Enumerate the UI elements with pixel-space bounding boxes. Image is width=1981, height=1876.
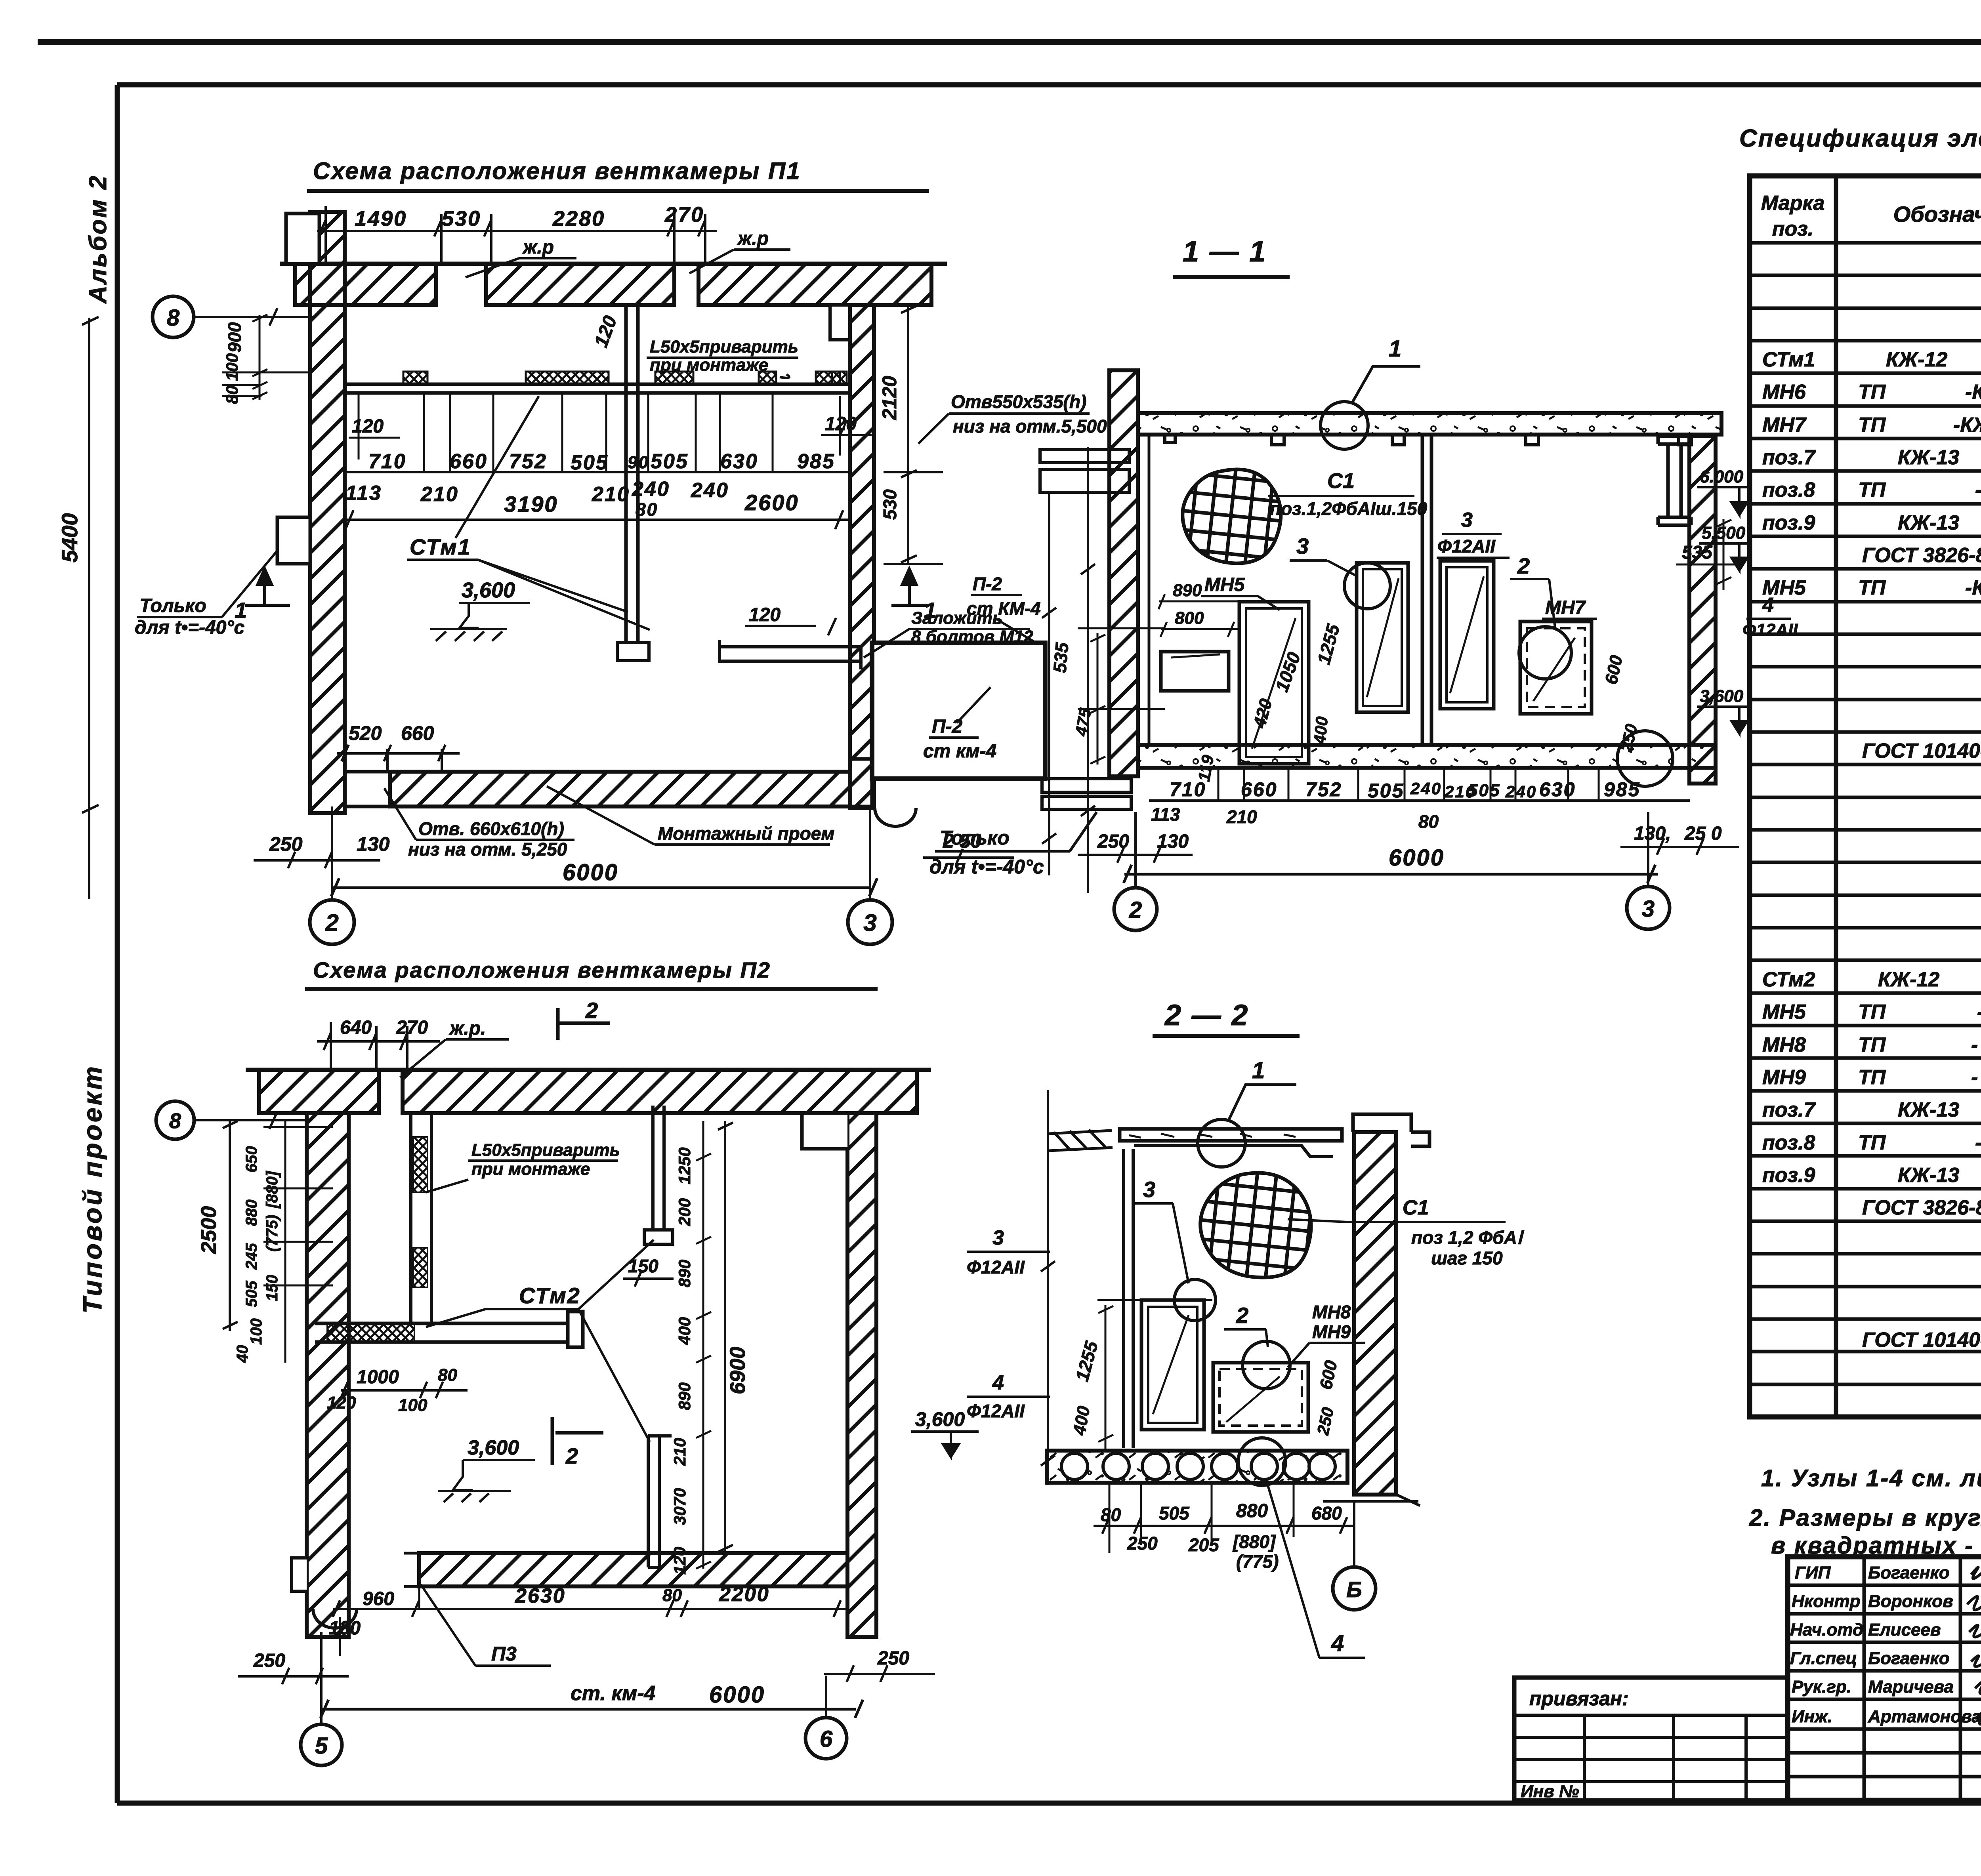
svg-text:3,600: 3,600 <box>915 1408 965 1430</box>
svg-text:505: 505 <box>1468 781 1500 800</box>
right wall hatched <box>850 305 874 808</box>
axis circle 2 <box>310 900 354 944</box>
title block grid <box>1514 1557 1981 1800</box>
svg-text:Гл.спец: Гл.спец <box>1790 1649 1857 1668</box>
svg-text:низ на отм. 5,250: низ на отм. 5,250 <box>408 839 567 860</box>
svg-text:5: 5 <box>315 1733 328 1759</box>
svg-text:4: 4 <box>1331 1630 1344 1656</box>
right wall hatched <box>1354 1132 1396 1495</box>
top wall band <box>259 1070 379 1113</box>
svg-text:Воронков: Воронков <box>1868 1592 1953 1611</box>
svg-text:2: 2 <box>585 998 598 1023</box>
signature table rows <box>1788 1585 1981 1777</box>
svg-text:520: 520 <box>349 722 382 744</box>
left wall bottom ledge <box>292 1558 307 1591</box>
bottom band opening edge <box>343 772 390 806</box>
svg-text:240: 240 <box>1410 779 1442 798</box>
node circle top <box>1198 1119 1245 1167</box>
svg-text:4: 4 <box>992 1371 1004 1394</box>
tall frame B <box>1357 563 1408 712</box>
dim row top <box>355 203 704 231</box>
signature table texts <box>1790 1563 1981 1726</box>
table header labels <box>1761 192 1981 240</box>
tall frame C <box>1440 561 1494 709</box>
axis circle 2 <box>1114 888 1157 930</box>
svg-text:100: 100 <box>398 1396 427 1415</box>
svg-text:привязан:: привязан: <box>1529 1687 1629 1710</box>
svg-text:650: 650 <box>243 1146 260 1172</box>
T flange right <box>568 1312 583 1347</box>
inner secondary wall <box>411 1113 431 1323</box>
left small dims stack <box>234 1146 281 1363</box>
right end line below wall <box>1323 1495 1420 1506</box>
svg-text:3,600: 3,600 <box>468 1436 519 1459</box>
svg-text:низ на отм.5,500: низ на отм.5,500 <box>953 416 1107 437</box>
svg-text:ТП: ТП <box>1858 1066 1886 1089</box>
bottom interior band <box>419 1553 847 1586</box>
svg-text:3: 3 <box>1296 534 1309 559</box>
svg-text:Ф12АII: Ф12АII <box>967 1257 1025 1277</box>
svg-text:Артамонова: Артамонова <box>1868 1707 1981 1726</box>
svg-text:(775): (775) <box>1236 1551 1279 1572</box>
svg-text:400: 400 <box>675 1317 694 1345</box>
svg-text:П3: П3 <box>491 1643 517 1665</box>
svg-text:6: 6 <box>820 1726 833 1752</box>
tall frame <box>1141 1300 1204 1430</box>
svg-text:шаг 150: шаг 150 <box>1431 1248 1503 1268</box>
svg-text:120: 120 <box>352 416 384 437</box>
svg-text:Марка: Марка <box>1761 192 1825 215</box>
svg-text:КЖ-13: КЖ-13 <box>1898 1098 1959 1121</box>
svg-text:2120: 2120 <box>878 376 901 420</box>
svg-text:Обозначение: Обозначение <box>1893 202 1981 227</box>
svg-text:505: 505 <box>571 451 609 474</box>
svg-text:МН6: МН6 <box>1762 381 1806 404</box>
svg-text:-КЖИ-1100: -КЖИ-1100 <box>1965 576 1981 599</box>
section mark 1 left <box>245 569 290 605</box>
svg-text:240: 240 <box>1505 782 1537 801</box>
svg-text:Нач.отд: Нач.отд <box>1790 1620 1863 1640</box>
svg-text:Б: Б <box>1346 1577 1362 1602</box>
svg-text:Схема расположения венткамеры: Схема расположения венткамеры П1 <box>313 158 801 184</box>
svg-text:250: 250 <box>269 833 303 855</box>
svg-text:6000: 6000 <box>563 860 618 885</box>
dims row mid numbers <box>368 450 835 474</box>
svg-text:СТм2: СТм2 <box>1762 968 1815 991</box>
svg-text:270: 270 <box>396 1017 428 1038</box>
svg-text:3: 3 <box>1461 509 1473 532</box>
signature table columns <box>1864 1557 1981 1800</box>
interior vertical wall double line <box>626 305 638 644</box>
svg-text:Елисеев: Елисеев <box>1868 1620 1941 1640</box>
svg-text:Отв. 660х610(h): Отв. 660х610(h) <box>418 818 564 839</box>
svg-text:3,600: 3,600 <box>1700 686 1744 706</box>
svg-text:120: 120 <box>670 1547 689 1575</box>
svg-text:630: 630 <box>720 450 758 473</box>
svg-text:5,500: 5,500 <box>1702 523 1746 543</box>
svg-text:поз.: поз. <box>1772 217 1814 240</box>
ceiling inner line <box>1134 1146 1333 1157</box>
left wall top pier <box>286 214 319 264</box>
I-beam column <box>1658 436 1691 525</box>
left wall <box>307 1113 349 1637</box>
svg-text:400: 400 <box>1310 716 1331 745</box>
svg-text:890: 890 <box>675 1382 694 1410</box>
svg-text:МН5: МН5 <box>1762 1001 1806 1024</box>
section flag 2 bottom <box>552 1417 603 1465</box>
svg-text:880: 880 <box>243 1199 260 1226</box>
svg-text:900: 900 <box>224 322 245 353</box>
svg-text:- КЖИ-1100: - КЖИ-1100 <box>1977 1001 1981 1024</box>
right wall hatched <box>1689 436 1716 784</box>
svg-text:1. Узлы 1-4 см. лист КЖ-: 1. Узлы 1-4 см. лист КЖ-13. <box>1761 1465 1981 1491</box>
wall parapet top <box>1353 1114 1429 1146</box>
svg-text:П-2: П-2 <box>973 574 1002 594</box>
svg-text:3: 3 <box>992 1226 1004 1249</box>
svg-text:2630: 2630 <box>515 1584 566 1607</box>
svg-text:ТП: ТП <box>1858 414 1886 437</box>
svg-text:Только: Только <box>139 595 206 616</box>
attachment box <box>1514 1678 1788 1800</box>
svg-text:2: 2 <box>1517 553 1530 578</box>
MN8 frame dashed <box>1213 1363 1308 1432</box>
svg-text:250: 250 <box>877 1648 909 1669</box>
MN5 frame <box>1239 602 1309 764</box>
svg-text:С1: С1 <box>1327 469 1355 493</box>
svg-text:- КЖИ-1200СБ: - КЖИ-1200СБ <box>1971 1033 1981 1056</box>
svg-text:ГОСТ 3826-82: ГОСТ 3826-82 <box>1862 1196 1981 1219</box>
svg-text:ТП: ТП <box>1858 1001 1886 1024</box>
svg-text:-КЖИ-1000: -КЖИ-1000 <box>1975 479 1981 501</box>
svg-text:130: 130 <box>357 833 390 855</box>
insulation segments on beam <box>403 372 847 384</box>
lower dimension line <box>345 510 850 529</box>
svg-text:Ф12АII: Ф12АII <box>1437 536 1496 557</box>
svg-text:Типовой проект: Типовой проект <box>78 1064 107 1314</box>
svg-text:МН5: МН5 <box>1204 574 1245 595</box>
svg-text:270: 270 <box>664 203 704 227</box>
vertical wall foot <box>617 642 649 661</box>
svg-text:Альбом 2: Альбом 2 <box>84 174 112 304</box>
half-round under pier <box>875 808 916 826</box>
svg-text:поз.9: поз.9 <box>1762 511 1815 534</box>
svg-text:530: 530 <box>880 489 900 520</box>
svg-text:СТм1: СТм1 <box>1762 348 1815 371</box>
bottom dim numbers <box>1170 778 1640 802</box>
svg-text:210: 210 <box>670 1438 689 1466</box>
svg-text:Нконтр: Нконтр <box>1792 1592 1861 1611</box>
svg-text:880: 880 <box>1236 1500 1268 1521</box>
svg-text:ж.р.: ж.р. <box>448 1018 486 1039</box>
svg-text:505: 505 <box>651 450 689 473</box>
svg-text:250: 250 <box>1127 1533 1158 1554</box>
svg-text:240: 240 <box>632 478 670 501</box>
svg-text:130,: 130, <box>1634 823 1671 844</box>
interior left face line <box>1148 435 1151 745</box>
node circle 2 <box>1242 1341 1290 1389</box>
svg-text:640: 640 <box>340 1017 372 1038</box>
svg-text:Схема расположения венткамеры: Схема расположения венткамеры П2 <box>313 957 771 982</box>
svg-text:2200: 2200 <box>719 1583 770 1606</box>
inner left wall double line <box>1124 1149 1133 1448</box>
mesh blob <box>1200 1173 1311 1277</box>
svg-text:210: 210 <box>1226 806 1257 827</box>
interior beam STm1 double line <box>345 384 850 393</box>
central wall double line <box>1422 435 1431 745</box>
svg-text:поз 1,2 ФбАⅠ: поз 1,2 ФбАⅠ <box>1411 1227 1525 1248</box>
svg-text:МН9: МН9 <box>1312 1321 1351 1342</box>
svg-text:для t•=-40°с: для t•=-40°с <box>135 617 244 638</box>
svg-text:890: 890 <box>675 1260 694 1287</box>
svg-text:2: 2 <box>1236 1303 1248 1328</box>
top slab speckled <box>1138 413 1721 435</box>
svg-text:130: 130 <box>1157 831 1189 852</box>
svg-text:150: 150 <box>263 1275 281 1301</box>
svg-text:120: 120 <box>749 604 781 625</box>
svg-text:(775): (775) <box>263 1215 281 1252</box>
top wall outer edge line <box>280 262 947 266</box>
svg-text:-КЖИ-1200-СБ: -КЖИ-1200-СБ <box>1953 414 1981 437</box>
svg-text:90: 90 <box>628 453 649 472</box>
axis circle 3 <box>1627 887 1670 929</box>
svg-text:660: 660 <box>1241 778 1277 801</box>
svg-text:800: 800 <box>1175 608 1204 628</box>
svg-text:250: 250 <box>253 1650 285 1671</box>
node circle floor <box>1238 1438 1286 1485</box>
vertical member 2 <box>648 1436 672 1567</box>
svg-text:3,600: 3,600 <box>462 578 515 602</box>
svg-text:660: 660 <box>401 722 434 744</box>
bottom step arc <box>313 1609 357 1628</box>
bottom band hatched <box>390 772 850 806</box>
svg-text:ГИП: ГИП <box>1795 1563 1831 1582</box>
svg-text:660: 660 <box>450 450 488 473</box>
left column hatched <box>1109 370 1138 776</box>
table body text <box>1762 248 1981 1414</box>
bottom right pier <box>850 759 872 806</box>
svg-text:8: 8 <box>169 1109 181 1133</box>
svg-text:2 — 2: 2 — 2 <box>1164 999 1249 1031</box>
mid dimension line with hanging ticks <box>345 471 850 473</box>
svg-text:5400: 5400 <box>57 513 82 562</box>
svg-text:Инв №: Инв № <box>1521 1782 1579 1801</box>
svg-text:поз.7: поз.7 <box>1762 1098 1816 1121</box>
svg-text:[880]: [880] <box>1232 1531 1276 1552</box>
svg-text:КЖ-12: КЖ-12 <box>1886 348 1947 371</box>
svg-text:ТП: ТП <box>1858 381 1886 404</box>
svg-text:100: 100 <box>248 1318 265 1345</box>
svg-text:Рук.гр.: Рук.гр. <box>1792 1677 1851 1697</box>
svg-text:3: 3 <box>1143 1177 1155 1202</box>
floor slab <box>1138 745 1716 768</box>
svg-text:1250: 1250 <box>675 1148 694 1184</box>
duct P-2 rectangle <box>872 643 1045 779</box>
svg-text:КЖ-13: КЖ-13 <box>1898 446 1959 469</box>
svg-text:для t•=-40°с: для t•=-40°с <box>929 856 1044 878</box>
svg-text:поз.1,2ФбАIш.150: поз.1,2ФбАIш.150 <box>1270 498 1428 519</box>
svg-text:535: 535 <box>1049 641 1073 673</box>
svg-text:630: 630 <box>1539 778 1576 801</box>
svg-text:ст км-4: ст км-4 <box>923 741 996 762</box>
svg-text:3: 3 <box>1642 896 1655 922</box>
svg-text:L50х5приварить: L50х5приварить <box>650 337 798 357</box>
svg-text:СТм2: СТм2 <box>519 1283 581 1308</box>
svg-text:- КЖИ-1000: - КЖИ-1000 <box>1975 1131 1981 1154</box>
right wall top notch <box>802 1113 847 1149</box>
svg-text:3070: 3070 <box>670 1488 689 1525</box>
svg-text:ж.р: ж.р <box>737 228 769 249</box>
svg-text:при монтаже: при монтаже <box>471 1159 590 1179</box>
svg-text:710: 710 <box>1170 778 1206 801</box>
svg-text:890: 890 <box>1173 581 1202 600</box>
node circle B <box>1333 1567 1376 1610</box>
svg-text:752: 752 <box>1305 778 1342 801</box>
svg-text:505: 505 <box>1368 780 1404 802</box>
MN7 frame dashed <box>1520 622 1592 714</box>
svg-text:ТП: ТП <box>1858 479 1886 501</box>
axis circle 8 <box>153 296 194 337</box>
dims row 2 <box>345 478 799 520</box>
svg-text:1: 1 <box>1252 1058 1265 1083</box>
svg-text:МН7: МН7 <box>1762 414 1807 437</box>
section mark 1 right <box>891 569 929 605</box>
node circle floor right <box>1617 731 1673 786</box>
svg-text:ТП: ТП <box>1858 576 1886 599</box>
svg-text:210: 210 <box>592 483 630 506</box>
slab ribs <box>1165 435 1691 445</box>
svg-text:поз.9: поз.9 <box>1762 1164 1815 1187</box>
bottom dim line 1 <box>1149 799 1690 802</box>
svg-text:4: 4 <box>1762 594 1774 617</box>
svg-text:[880]: [880] <box>263 1171 281 1209</box>
svg-text:80: 80 <box>636 499 658 520</box>
svg-text:-КЖИ-1200: -КЖИ-1200 <box>1965 381 1981 404</box>
node circle 2 <box>1519 627 1571 679</box>
svg-text:МН8: МН8 <box>1312 1302 1351 1322</box>
right wall <box>847 1113 876 1637</box>
svg-text:СТм1: СТм1 <box>410 534 471 559</box>
svg-text:960: 960 <box>363 1588 394 1609</box>
svg-text:505: 505 <box>243 1281 260 1307</box>
svg-text:40: 40 <box>234 1345 251 1363</box>
svg-text:100: 100 <box>223 353 241 381</box>
slab left broken pieces <box>1049 1130 1113 1151</box>
svg-text:- КЖИ-1200СБ: - КЖИ-1200СБ <box>1971 1066 1981 1089</box>
svg-text:КЖ-13: КЖ-13 <box>1898 511 1959 534</box>
right rotated dims column <box>670 1148 694 1575</box>
svg-text:6900: 6900 <box>726 1347 750 1394</box>
svg-text:Богаенко: Богаенко <box>1868 1563 1950 1582</box>
svg-text:ТП: ТП <box>1858 1131 1886 1154</box>
svg-text:Богаенко: Богаенко <box>1868 1649 1950 1668</box>
svg-text:2: 2 <box>565 1443 578 1468</box>
P-2 bracket upper left <box>1040 450 1129 492</box>
axis circle 5 <box>301 1724 342 1765</box>
svg-text:Отв550х535(h): Отв550х535(h) <box>951 391 1086 412</box>
svg-text:2: 2 <box>1129 897 1142 923</box>
svg-text:505: 505 <box>1159 1503 1190 1523</box>
floor slab with cores <box>1047 1451 1347 1483</box>
left wall flange (t=-40) <box>277 517 310 564</box>
svg-text:535: 535 <box>1682 542 1713 562</box>
wall axis line <box>1081 447 1095 893</box>
svg-text:2500: 2500 <box>197 1206 221 1254</box>
svg-text:1490: 1490 <box>355 207 407 231</box>
svg-text:210: 210 <box>420 483 459 506</box>
svg-text:80: 80 <box>223 385 241 404</box>
svg-text:80: 80 <box>438 1365 457 1385</box>
top rule <box>38 39 1981 45</box>
svg-text:поз.8: поз.8 <box>1762 1131 1815 1154</box>
svg-text:С1: С1 <box>1403 1196 1429 1219</box>
band inner line <box>404 1553 419 1586</box>
svg-text:Ф12АII: Ф12АII <box>967 1401 1025 1421</box>
svg-text:120: 120 <box>327 1393 356 1413</box>
svg-text:поз.7: поз.7 <box>1762 446 1816 469</box>
svg-text:530: 530 <box>442 207 481 231</box>
svg-text:985: 985 <box>797 450 835 473</box>
left boundary line <box>1041 1090 1055 1485</box>
node circle 3 <box>1344 563 1390 609</box>
bracket lower left <box>1042 779 1131 809</box>
axis circle 8 <box>156 1101 194 1139</box>
svg-text:ГОСТ 10140-80: ГОСТ 10140-80 <box>1862 1329 1981 1352</box>
STm2 horizontal beam <box>315 1323 575 1342</box>
svg-text:Инж.: Инж. <box>1792 1707 1832 1726</box>
svg-text:Монтажный проем: Монтажный проем <box>658 823 834 844</box>
mesh blob C1 <box>1183 469 1281 563</box>
svg-text:ст. км-4: ст. км-4 <box>571 1682 656 1705</box>
svg-text:МН9: МН9 <box>1762 1066 1806 1089</box>
section flag 2 top <box>558 1008 610 1040</box>
axis circle 6 <box>805 1718 847 1759</box>
svg-text:680: 680 <box>1311 1503 1342 1523</box>
axis circle 3 <box>848 900 892 944</box>
svg-text:П-2: П-2 <box>932 716 963 737</box>
svg-text:752: 752 <box>509 450 547 473</box>
svg-text:КЖ-13: КЖ-13 <box>1898 1164 1959 1187</box>
spec table grid <box>1750 176 1981 1417</box>
svg-text:КЖ-12: КЖ-12 <box>1878 968 1939 991</box>
svg-text:ТП: ТП <box>1858 1033 1886 1056</box>
svg-text:Ф12АII: Ф12АII <box>1742 620 1798 640</box>
node circle 1 <box>1321 402 1368 449</box>
svg-text:6000: 6000 <box>1389 845 1445 871</box>
svg-text:205: 205 <box>1188 1535 1220 1555</box>
svg-text:3: 3 <box>863 909 876 936</box>
node circle 3 <box>1174 1279 1216 1321</box>
svg-text:поз.8: поз.8 <box>1762 479 1815 501</box>
svg-text:200: 200 <box>675 1198 694 1226</box>
svg-text:6.000: 6.000 <box>1700 467 1744 486</box>
svg-text:240: 240 <box>691 479 729 502</box>
svg-text:80: 80 <box>1418 811 1439 832</box>
svg-text:1000: 1000 <box>357 1367 399 1388</box>
top slab <box>1120 1129 1342 1141</box>
anchor plate under duct <box>719 640 861 669</box>
top wall band hatched segments <box>295 264 931 305</box>
right wall inner notch <box>830 305 850 340</box>
svg-text:2. Размеры в круглых скобках: 2. Размеры в круглых скобках для tН= -20… <box>1749 1504 1981 1531</box>
svg-text:2600: 2600 <box>744 490 799 515</box>
svg-text:ст КМ-4: ст КМ-4 <box>967 598 1041 619</box>
svg-text:2280: 2280 <box>552 207 605 231</box>
svg-text:ГОСТ 10140-80: ГОСТ 10140-80 <box>1862 740 1981 763</box>
svg-text:2: 2 <box>325 909 338 936</box>
svg-text:8: 8 <box>167 305 180 331</box>
vertical member 1 <box>653 1106 664 1230</box>
svg-text:МН8: МН8 <box>1762 1033 1806 1056</box>
